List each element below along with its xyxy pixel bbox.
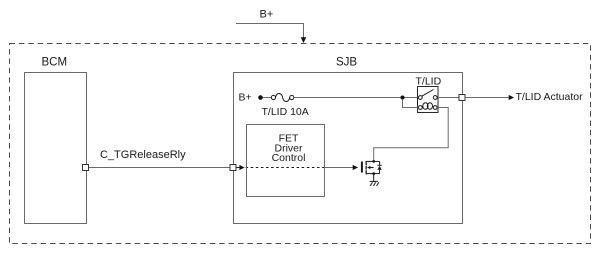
svg-text:C_TGReleaseRly: C_TGReleaseRly xyxy=(100,149,186,161)
svg-text:BCM: BCM xyxy=(42,57,68,69)
svg-text:Control: Control xyxy=(272,152,306,164)
svg-text:B+: B+ xyxy=(239,92,252,104)
svg-text:B+: B+ xyxy=(260,9,274,21)
svg-text:T/LID Actuator: T/LID Actuator xyxy=(516,91,584,103)
svg-text:T/LID: T/LID xyxy=(416,76,442,88)
svg-text:SJB: SJB xyxy=(336,57,357,69)
svg-text:T/LID 10A: T/LID 10A xyxy=(262,106,309,118)
